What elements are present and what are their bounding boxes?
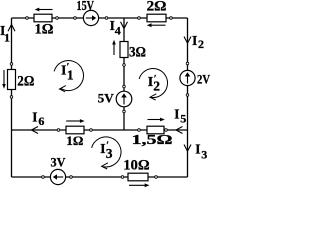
- resistor 1ohm (top left): [34, 8, 54, 38]
- node dot top a: [26, 17, 29, 20]
- svg-text:3Ω: 3Ω: [129, 45, 146, 61]
- voltage source 3V: [50, 155, 66, 185]
- wire middle horizontal: [12, 129, 188, 131]
- node dot top b: [56, 17, 59, 20]
- current arrow I1: [0, 23, 15, 44]
- svg-text:3: 3: [106, 146, 113, 161]
- svg-text:3V: 3V: [51, 155, 67, 170]
- svg-text:I: I: [32, 109, 37, 124]
- node dot central c: [123, 110, 126, 113]
- resistor 2ohm (top right): [147, 0, 167, 27]
- svg-text:2Ω: 2Ω: [17, 74, 34, 90]
- node dot top c: [74, 17, 77, 20]
- svg-text:3: 3: [201, 148, 207, 162]
- svg-text:2: 2: [153, 78, 160, 93]
- wire central vertical: [123, 18, 125, 130]
- mesh current I3': [92, 137, 121, 169]
- svg-text:10Ω: 10Ω: [123, 158, 150, 174]
- svg-text:1: 1: [4, 31, 10, 45]
- wire left: [11, 18, 13, 177]
- svg-text:15V: 15V: [77, 0, 95, 13]
- resistor 2ohm (left): [2, 70, 34, 90]
- svg-text:4: 4: [115, 23, 121, 37]
- node dot central a: [123, 64, 126, 67]
- node dot middle a: [57, 129, 60, 132]
- svg-text:5V: 5V: [98, 90, 115, 105]
- svg-text:I: I: [174, 106, 179, 121]
- node dot middle d: [165, 129, 168, 132]
- svg-text:I: I: [192, 33, 197, 48]
- node dot middle c: [138, 129, 141, 132]
- current arrow I2: [184, 33, 204, 51]
- node dot right b: [186, 94, 189, 97]
- voltage source 5V: [98, 90, 132, 106]
- node dot top d: [105, 17, 108, 20]
- svg-text:5: 5: [180, 112, 186, 126]
- voltage source 15V: [77, 0, 99, 26]
- node dot bottom d: [155, 176, 158, 179]
- node dot middle b: [90, 129, 93, 132]
- svg-text:I: I: [195, 141, 200, 156]
- svg-text:6: 6: [38, 114, 44, 128]
- resistor 1ohm (middle): [66, 119, 85, 148]
- resistor 3ohm (central): [112, 40, 146, 61]
- node dot top f: [170, 17, 173, 20]
- current arrow I4: [110, 18, 128, 37]
- svg-text:1: 1: [67, 67, 74, 82]
- voltage source 2V: [180, 70, 210, 86]
- node dot left b: [10, 96, 13, 99]
- node dot bottom c: [121, 176, 124, 179]
- svg-text:1,5Ω: 1,5Ω: [132, 132, 173, 147]
- svg-text:1Ω: 1Ω: [66, 133, 83, 148]
- current arrow I6: [32, 109, 45, 133]
- node dot left a: [10, 63, 13, 66]
- node dot top e: [138, 17, 141, 20]
- node dot central b: [123, 85, 126, 88]
- resistor 1,5ohm (middle right): [132, 118, 173, 147]
- resistor 10ohm (bottom): [123, 158, 150, 188]
- current arrow I5: [174, 106, 186, 133]
- svg-text:2: 2: [198, 37, 204, 51]
- wire right: [187, 18, 189, 177]
- svg-text:2Ω: 2Ω: [147, 0, 167, 14]
- node dot right a: [186, 62, 189, 65]
- wire bottom: [12, 176, 188, 178]
- node dot bottom a: [42, 176, 45, 179]
- node dot bottom b: [70, 176, 73, 179]
- svg-text:2V: 2V: [197, 72, 210, 86]
- current arrow I3: [184, 141, 207, 161]
- mesh current I1': [54, 61, 83, 92]
- svg-text:1Ω: 1Ω: [35, 21, 54, 37]
- wire top: [12, 17, 188, 19]
- mesh current I2': [139, 69, 167, 100]
